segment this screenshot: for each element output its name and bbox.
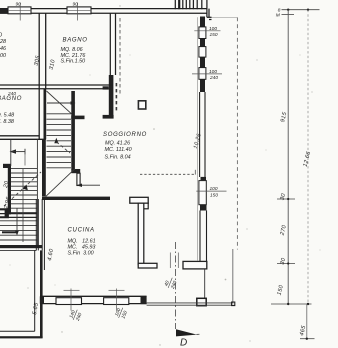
dim: east O3 tick + labels (196, 186, 226, 198)
section arrow D (176, 329, 197, 336)
wall: bottom-left exterior band (0, 331, 43, 338)
svg-text:MC. 8.38: MC. 8.38 (0, 119, 14, 125)
bottom tick of 465 line (300, 338, 315, 340)
wall: bump left at bagno bottom junction (103, 86, 109, 89)
right dim tick 30 lower (277, 257, 295, 266)
stair left wall (8, 168, 11, 214)
window: top wall left "90" (8, 1, 31, 20)
right dim line 2 (12.66) dotted (307, 10, 309, 304)
svg-text:90: 90 (73, 1, 79, 7)
wall: landing bottom band (0, 245, 43, 248)
terrace east wall faint (232, 249, 234, 303)
dim: vertical line with up arrow (stair landing) (10, 140, 26, 166)
svg-text:M: M (276, 13, 280, 19)
wall: stair right upper flange (71, 116, 84, 120)
hidden dashed door swing (115, 83, 117, 112)
svg-text:150: 150 (210, 192, 218, 198)
wall: kitchen divider bottom horizontal (138, 263, 157, 268)
svg-text:100: 100 (210, 186, 218, 192)
wall: kitchen divider cap (130, 197, 148, 203)
wall: east wall double mid (200, 92, 207, 261)
window: east O1b (199, 47, 206, 58)
wall: small pier below flange (77, 173, 80, 185)
section line D dash-dot (175, 242, 177, 329)
dim: window2 center line + tick (109, 289, 125, 311)
tick at dashed line end (194, 170, 196, 175)
text: room bagno2 (cut) (0, 91, 22, 125)
wall: stair west face dark segment (44, 89, 47, 140)
wall: kitchen south double band (40, 296, 147, 303)
wall: kitchen south west corner block (40, 296, 44, 303)
under-stair diagonal (46, 169, 75, 197)
window: east O3 tall (199, 181, 206, 205)
wall: kitchen west upper double pair (36, 199, 44, 270)
dashed line in soggiorno (140, 173, 196, 175)
svg-text:S.Fin. 8.04: S.Fin. 8.04 (105, 154, 131, 160)
stairs flight B walkline dashed with arrow (4, 172, 41, 206)
svg-text:MQ. 5.48: MQ. 5.48 (0, 113, 14, 119)
stairs flight A arrow line (47, 101, 76, 105)
wall: top exterior band (0, 9, 208, 14)
wall: foot at end (103, 115, 114, 119)
stair-side boundary line (36, 139, 38, 245)
text: room bagno (61, 38, 88, 65)
wall: kitchen divider cap step (143, 203, 148, 209)
chimney square in soggiorno (138, 101, 145, 109)
hidden dashed line beside bagno wall (119, 18, 121, 94)
svg-text:90: 90 (16, 1, 22, 7)
wall: stair right solid (71, 91, 75, 169)
svg-text:00: 00 (0, 53, 6, 59)
stair left wall cap (3, 164, 11, 168)
dim: L arrow lower stair (2, 208, 19, 236)
wall: east wall piers (200, 17, 207, 211)
stairs flight A top diagonal (47, 91, 72, 114)
window: kitchen south 1 (56, 298, 82, 305)
door opening extension lines (170, 253, 178, 269)
dim: window1 center line + tick (64, 289, 80, 311)
svg-text:BAGNO: BAGNO (63, 38, 88, 44)
wall: bagno west (interior vertical to soggiorno) upper double (110, 13, 115, 88)
wall: door flange right (soggiorno SW) (183, 261, 207, 269)
wall: bagno west lower solid (109, 75, 114, 118)
wall: kitchen divider vertical (138, 203, 144, 264)
svg-text:CUCINA: CUCINA (68, 228, 95, 234)
wall: bagno bottom horizontal (0, 85, 113, 89)
svg-text:8: 8 (278, 7, 281, 13)
svg-text:MQ. 41.26: MQ. 41.26 (105, 140, 130, 146)
stairs walkline arrow up (54, 138, 70, 153)
text: room letto (cut at left edge) (0, 33, 6, 60)
svg-text:46: 46 (0, 46, 6, 52)
svg-text:MC. 111.40: MC. 111.40 (105, 147, 132, 153)
right dim line 1 (915) (287, 10, 289, 304)
svg-text:28: 28 (0, 39, 6, 45)
door dimension arrow at stair exit (77, 184, 101, 188)
stairs flight B lower treads (0, 221, 37, 240)
svg-text:100: 100 (209, 69, 217, 75)
east wall lower thin line (204, 269, 206, 298)
svg-text:D: D (180, 338, 187, 348)
window: east O2 (199, 68, 206, 80)
wall: bagno2 bottom horizontal (0, 136, 46, 140)
svg-text:150: 150 (210, 32, 218, 38)
dim: east O2 tick + labels (192, 69, 222, 81)
chimney square at bottom wall (197, 298, 206, 305)
landing bottom thin line (0, 249, 36, 251)
window: top wall second "90" (67, 1, 91, 20)
dim: east O1 tick + labels (194, 26, 220, 38)
landing bracket bottom-left (0, 208, 9, 218)
dim label 140/240 rotated (68, 308, 84, 323)
wall: interior vertical between rooms (letto/bagno) (39, 13, 46, 139)
text: room soggiorno (103, 132, 147, 160)
dashed projection line right (236, 18, 238, 250)
dim label 40/240 door rotated (163, 276, 179, 291)
window: kitchen south 2 (104, 298, 129, 305)
svg-text:SOGGIORNO: SOGGIORNO (103, 132, 147, 138)
stair mid line flight B (22, 169, 24, 243)
stairs flight A treads (47, 114, 72, 168)
terrace bottom double line (147, 303, 234, 305)
wall: kitchen west lower (35, 250, 43, 337)
wall: kitchen south right corner block (141, 296, 147, 304)
right dim junction (271, 303, 312, 340)
dim label 100/150 rotated (114, 306, 130, 321)
svg-text:240: 240 (209, 75, 218, 81)
wire: thin eave line to dashed (212, 17, 238, 19)
wall: top-right corner step (207, 0, 212, 20)
wall: stair right flange (71, 169, 80, 173)
window: east O1 (199, 27, 206, 39)
right dim column: top ticks and labels (276, 7, 320, 18)
svg-text:S.Fin 3.00: S.Fin 3.00 (68, 250, 94, 256)
stair landing edge band (0, 214, 37, 218)
stairs flight B treads (11, 169, 37, 213)
wall: stair left solid (42, 139, 46, 196)
terrace SE corner (232, 302, 235, 306)
railing bars above top wall (175, 0, 202, 9)
text: room cucina (68, 228, 96, 257)
right dim tick 30 upper (277, 192, 295, 201)
wall: east inner face thin line (196, 17, 198, 261)
svg-text:S.Fin.1.50: S.Fin.1.50 (61, 59, 86, 65)
wall: stair bottom / kitchen north solid (42, 197, 110, 200)
svg-text:BAGNO: BAGNO (0, 96, 22, 102)
svg-text:MQ. 12.61: MQ. 12.61 (68, 238, 96, 244)
wall: top-left solid stub (0, 8, 8, 13)
svg-text:100: 100 (209, 26, 217, 32)
